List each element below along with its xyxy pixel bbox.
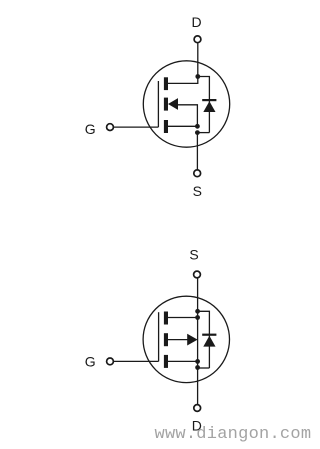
- wire drain bar to drain node Q2: [168, 360, 198, 362]
- wire diode anode stub: [197, 132, 209, 134]
- gate bar Q2: [158, 312, 160, 361]
- terminal S (Q2 source pin): [194, 271, 201, 278]
- wire drain node to D terminal Q2: [197, 368, 199, 405]
- body channel bar Q2: [164, 333, 168, 346]
- terminal D (Q1 drain pin): [194, 36, 201, 43]
- wire source node to S: [196, 133, 198, 170]
- junction dot source node Q1: [195, 124, 200, 129]
- svg-text:S: S: [189, 247, 198, 263]
- junction dot drain bar node Q2: [195, 359, 200, 364]
- source channel bar Q1: [164, 120, 168, 133]
- drain channel bar Q2: [164, 355, 168, 368]
- wire diode branch (drain node to diode top): [198, 77, 210, 133]
- wire drain bar to drain node: [168, 77, 198, 84]
- body diode Q1: [203, 101, 215, 112]
- wire source bar to source node Q2: [168, 317, 198, 319]
- svg-text:G: G: [85, 354, 96, 370]
- wire body bar to arrow Q2: [168, 339, 188, 341]
- svg-text:G: G: [85, 121, 96, 137]
- junction dot diode anode node Q2: [195, 365, 200, 370]
- terminal S (Q1 source pin): [194, 170, 201, 177]
- junction dot drain node Q1: [195, 74, 200, 79]
- gate bar Q1: [157, 81, 159, 127]
- drain channel bar Q1: [164, 77, 168, 90]
- wire D to drain node: [197, 43, 199, 76]
- wire body to source node: [178, 105, 198, 127]
- junction dot source node Q2: [195, 315, 200, 320]
- junction dot diode anode node Q1: [195, 130, 200, 135]
- transistor Q2 envelope: [143, 296, 229, 382]
- wire source node down to drain node Q2: [197, 311, 199, 367]
- wire diode anode stub Q2: [198, 367, 210, 369]
- body diode Q2 cathode bar: [202, 334, 216, 336]
- svg-text:D: D: [192, 14, 202, 30]
- wire G to gate: [114, 126, 159, 128]
- body arrow Q1 (N-channel, pointing in): [168, 98, 178, 110]
- wire S to source node Q2: [197, 278, 199, 311]
- svg-text:www.diangon.com: www.diangon.com: [155, 425, 312, 444]
- svg-text:S: S: [193, 183, 202, 199]
- wire G to gate Q2: [114, 360, 159, 362]
- body arrow Q2 (P-channel, pointing out): [187, 334, 197, 346]
- body diode Q1 cathode bar: [202, 99, 216, 101]
- body channel bar Q1: [164, 98, 168, 111]
- junction dot diode cathode node Q2: [195, 309, 200, 314]
- terminal D (Q2 drain pin): [194, 405, 201, 412]
- body diode Q2: [203, 336, 215, 347]
- wire diode branch Q2 (source node to diode line): [198, 311, 210, 368]
- terminal G (Q1 gate pin): [107, 124, 114, 131]
- terminal G (Q2 gate pin): [107, 358, 114, 365]
- wire source bar to source node: [168, 125, 197, 127]
- transistor Q1 envelope: [143, 61, 229, 147]
- source channel bar Q2: [164, 312, 168, 325]
